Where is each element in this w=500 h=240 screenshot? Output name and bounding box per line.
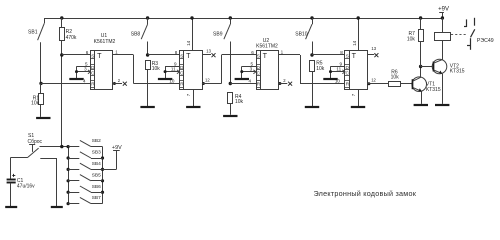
svg-text:T: T	[263, 51, 268, 60]
svg-text:10k: 10k	[316, 66, 325, 72]
pin 13 stub U2b (NC)	[368, 46, 379, 57]
node bus / U1a S-input	[60, 53, 63, 56]
switch SB3	[67, 150, 105, 160]
svg-text:РЭС49: РЭС49	[477, 38, 494, 44]
resistor R2 470k	[60, 16, 77, 41]
node SB9/R4/U2a R junction	[229, 82, 232, 85]
wire S1 upper contact to reset bus	[40, 146, 69, 148]
svg-text:SB7: SB7	[92, 195, 101, 201]
svg-text:K561TM2: K561TM2	[94, 39, 116, 45]
svg-text:S: S	[257, 54, 260, 59]
svg-text:T: T	[186, 51, 191, 60]
svg-text:8: 8	[340, 50, 343, 55]
svg-text:S: S	[346, 54, 349, 59]
power +9V terminal (top right)	[438, 6, 449, 19]
pin 14 VDD U2b	[352, 16, 360, 50]
svg-text:K561TM2: K561TM2	[256, 43, 278, 49]
svg-text:10k: 10k	[152, 66, 161, 72]
wire U2a Q output to U2b pin 10	[279, 55, 346, 84]
svg-text:SB3: SB3	[92, 150, 101, 156]
svg-text:6: 6	[251, 50, 254, 55]
svg-text:10k: 10k	[391, 74, 400, 80]
relay K1 coil	[435, 18, 451, 41]
relay contacts RES49	[464, 18, 494, 50]
wire U1b Q to U2a pin 6 (S)	[202, 55, 256, 84]
pin 14 VDD U1b	[186, 16, 194, 50]
ground below VT2 emitter	[435, 104, 449, 106]
svg-text:470k: 470k	[66, 35, 77, 41]
node D/C tie U2b	[331, 66, 346, 68]
node SB10/R5/U2b S junction	[310, 53, 313, 56]
wire S1 lower contact to ground	[40, 158, 57, 206]
svg-text:S: S	[91, 54, 94, 59]
svg-text:Электронный кодовый замок: Электронный кодовый замок	[314, 189, 417, 198]
ground below S1 lower contact	[51, 206, 63, 208]
svg-text:13: 13	[371, 46, 376, 51]
svg-text:S: S	[180, 54, 183, 59]
node SB1/R1/R-input junction	[39, 82, 42, 85]
switch S1 (Sbros reset button)	[11, 133, 43, 157]
svg-text:3: 3	[84, 67, 87, 72]
wire R6 to VT1 base	[401, 83, 412, 85]
svg-text:+9V: +9V	[112, 145, 122, 151]
svg-text:T: T	[97, 51, 102, 60]
pin 12 output U1b	[202, 78, 210, 86]
svg-text:14: 14	[352, 40, 357, 46]
ground below R3	[140, 106, 154, 108]
U1 label	[94, 33, 116, 45]
svg-text:T: T	[352, 51, 357, 60]
node SB8/R3/U1b S junction	[146, 53, 149, 56]
node D/C tie U1a	[77, 66, 91, 68]
svg-text:SB5: SB5	[92, 172, 101, 178]
transistor VT2 KT315	[432, 41, 465, 104]
op-amp U1b flip-flop K561TM2	[180, 51, 203, 90]
node R7/VT1 collector/VT2 base	[419, 65, 422, 68]
svg-text:R: R	[180, 82, 184, 87]
svg-text:12: 12	[205, 78, 210, 83]
svg-text:+9V: +9V	[438, 6, 449, 12]
op-amp U2b flip-flop K561TM2	[345, 51, 368, 90]
ground below R4	[223, 115, 237, 117]
svg-text:9: 9	[174, 61, 177, 66]
wire SB right bus	[102, 147, 104, 204]
switch SB5	[67, 172, 105, 182]
pin 13 stub U1b (NC)	[202, 48, 216, 57]
wire +9V top rail	[44, 18, 442, 20]
svg-text:9: 9	[339, 61, 342, 66]
svg-text:KT315: KT315	[426, 87, 441, 93]
switch SB4	[67, 161, 105, 171]
wire node to VT2 base	[421, 66, 433, 68]
op-amp U2a flip-flop K561TM2	[257, 51, 279, 90]
switch SB2	[67, 138, 103, 148]
pin 7 VSS U1b	[186, 89, 194, 106]
wire U2b pin 12 to R6	[368, 83, 389, 85]
resistor R5 10k	[310, 60, 325, 106]
pin 12 output U2b	[367, 78, 376, 86]
op-amp U1a flip-flop K561TM2	[91, 51, 113, 90]
wire bus to U1a pin 6 (S)	[62, 54, 91, 56]
switch SB6	[67, 184, 105, 194]
svg-text:SB4: SB4	[92, 161, 101, 167]
svg-text:10k: 10k	[235, 99, 244, 105]
ground below U2b pin 7	[351, 106, 365, 108]
ground below R1	[36, 117, 50, 119]
pin 7 VSS U2b	[351, 89, 359, 106]
svg-text:12: 12	[371, 78, 376, 83]
svg-text:R: R	[346, 82, 350, 87]
svg-text:10k: 10k	[407, 37, 416, 43]
wire node to U2b pin 8 (S)	[312, 54, 345, 56]
svg-text:SB9: SB9	[213, 31, 223, 37]
pin 2 stub U2a (NC)	[278, 78, 292, 86]
svg-text:SB8: SB8	[131, 31, 141, 37]
svg-text:47u/16v: 47u/16v	[17, 184, 35, 190]
switch SB1	[28, 18, 44, 83]
svg-text:SB2: SB2	[92, 138, 101, 144]
svg-text:SB1: SB1	[28, 29, 38, 35]
svg-text:8: 8	[175, 50, 178, 55]
resistor R4 10k	[228, 93, 244, 115]
wire node to U2a pin 4 (R)	[230, 83, 256, 85]
svg-text:13: 13	[206, 48, 211, 53]
svg-text:R: R	[257, 82, 261, 87]
resistor R7 10k	[407, 16, 424, 66]
switch SB8	[146, 16, 149, 19]
svg-text:R: R	[91, 82, 95, 87]
wire U1a Q output to U1b pin 10	[113, 55, 180, 84]
capacitor C1 47u/16v	[7, 157, 36, 206]
resistor R1 10k	[31, 84, 43, 117]
power +9V tap (near SB4)	[103, 145, 123, 170]
svg-text:5: 5	[85, 61, 88, 66]
svg-text:3: 3	[250, 67, 253, 72]
svg-text:Сброс: Сброс	[28, 139, 43, 145]
svg-text:SB10: SB10	[295, 31, 307, 37]
svg-text:14: 14	[186, 40, 191, 46]
svg-text:11: 11	[171, 67, 176, 72]
node reset bus / left bus	[60, 145, 63, 148]
resistor R3 10k	[146, 61, 161, 107]
svg-text:5: 5	[250, 61, 253, 66]
switch SB10	[310, 16, 313, 19]
ground below C1	[5, 206, 17, 208]
U2 label	[256, 38, 278, 49]
ground below VT1 emitter	[414, 104, 428, 106]
ground below R5	[305, 106, 319, 108]
pin 2 stub U1a (NC)	[113, 78, 127, 86]
switch SB7	[67, 195, 103, 205]
svg-text:10k: 10k	[31, 101, 40, 107]
transistor VT1 KT315	[412, 67, 441, 104]
wire SB1 node to U1a pin 4	[41, 83, 91, 85]
resistor R6 10k	[389, 69, 401, 86]
ground below U1b pin 7	[186, 106, 200, 108]
node D/C tie U2a	[242, 66, 256, 68]
wire SB left bus	[68, 147, 70, 204]
node D/C tie U1b	[165, 66, 179, 68]
relay contact link (dashed)	[451, 34, 467, 36]
wire node to U1b pin 8 (S)	[148, 54, 180, 56]
svg-text:6: 6	[86, 50, 89, 55]
wire left bus R2 to reset line	[61, 40, 63, 146]
svg-text:11: 11	[336, 67, 341, 72]
svg-text:SB6: SB6	[92, 184, 101, 190]
svg-text:KT315: KT315	[450, 69, 465, 75]
switch SB9	[229, 16, 232, 19]
